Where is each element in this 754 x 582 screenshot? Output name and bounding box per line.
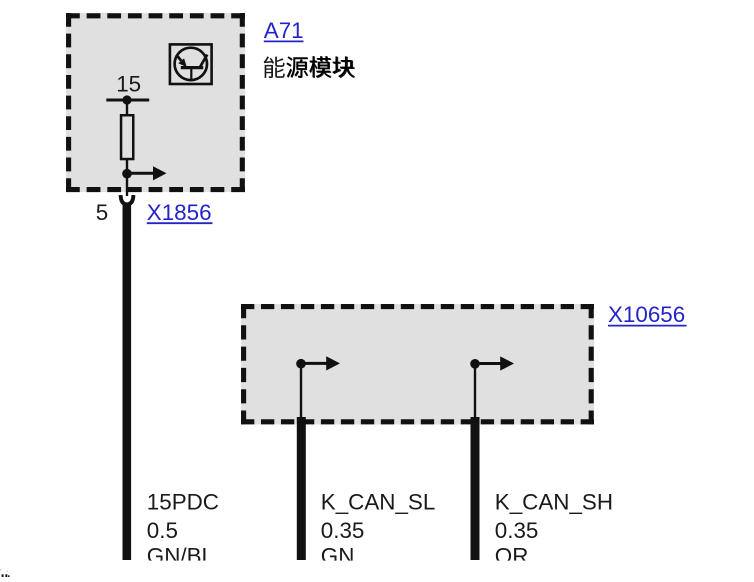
X10656 box dashed border bottom <box>241 419 594 424</box>
connector X10656 box fill <box>241 304 594 425</box>
electronic control unit icon U1: circle <box>175 48 207 80</box>
bottom clip band (page crop) <box>0 561 754 577</box>
wire from terminal 15 into fuse <box>126 100 128 115</box>
wire continuation arrow shaft <box>127 172 155 175</box>
transistor symbol: base lead down <box>190 68 192 80</box>
junction dot at arrow <box>122 169 132 179</box>
svg-text:K_CAN_SH: K_CAN_SH <box>495 490 613 515</box>
wire K_CAN_SH (thick) <box>471 417 480 560</box>
A71 box dashed border left <box>66 13 71 192</box>
module name 能源模块 (energy module) as vector glyphs <box>264 56 355 78</box>
terminal 15 junction dot <box>122 95 131 104</box>
wire K_CAN_SL (thick) <box>297 417 306 560</box>
pin symbol 2 in X10656: junction dot <box>470 359 480 369</box>
pin symbol 1: arrow shaft <box>301 362 329 365</box>
A71 box dashed border right <box>240 13 245 192</box>
pin symbol 1: lead wire down <box>300 364 302 424</box>
wire 15PDC (thick) <box>123 203 132 560</box>
transistor symbol inside icon: base bar <box>181 66 203 69</box>
X10656 box dashed border left <box>241 304 246 424</box>
svg-text:X10656: X10656 <box>608 302 685 327</box>
svg-text:A71: A71 <box>264 18 304 43</box>
pin symbol 1: arrowhead <box>326 356 340 370</box>
X10656 box dashed border right <box>589 304 594 424</box>
svg-text:0.5: 0.5 <box>147 518 178 543</box>
svg-text:X1856: X1856 <box>147 200 212 225</box>
svg-text:5: 5 <box>96 200 108 225</box>
pin symbol 2: arrow shaft <box>475 362 503 365</box>
pin symbol 2: lead wire down <box>474 364 476 424</box>
svg-text:0.35: 0.35 <box>495 518 539 543</box>
terminal 15 bar <box>106 99 149 102</box>
bottom-left clipped text artifact <box>0 569 10 577</box>
svg-text:15: 15 <box>116 72 141 97</box>
transistor symbol: emitter diagonal with arrow <box>176 55 181 61</box>
wire continuation arrowhead <box>153 166 167 180</box>
fuse element F (rectangle) <box>121 115 133 159</box>
svg-text:0.35: 0.35 <box>321 518 365 543</box>
link underline A71 <box>264 40 304 42</box>
control unit A71 box fill <box>66 13 245 192</box>
pin symbol 2: arrowhead <box>500 356 514 370</box>
electronic control unit icon U1: square <box>170 44 212 84</box>
X10656 box dashed border top <box>241 304 594 309</box>
transistor symbol: emitter arrowhead <box>178 58 187 67</box>
wire from fuse to pin 5 <box>126 159 128 196</box>
svg-text:K_CAN_SL: K_CAN_SL <box>321 490 436 515</box>
pin symbol 1 in X10656: junction dot <box>296 359 306 369</box>
link underline X10656 <box>608 325 687 327</box>
A71 box dashed border bottom <box>66 187 245 192</box>
svg-text:15PDC: 15PDC <box>147 490 219 515</box>
transistor symbol: collector diagonal <box>200 55 207 67</box>
link underline X1856 <box>147 222 213 224</box>
connector X1856 socket cup symbol <box>121 195 134 204</box>
A71 box dashed border top <box>66 13 245 18</box>
